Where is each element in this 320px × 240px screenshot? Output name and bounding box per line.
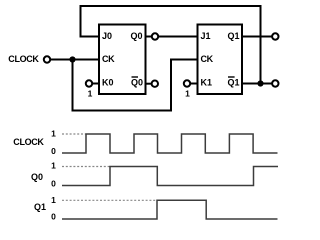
svg-text:CLOCK: CLOCK xyxy=(13,137,44,147)
svg-text:K1: K1 xyxy=(201,78,213,88)
waveform Q1 dotted level-1 leader xyxy=(62,199,157,201)
svg-text:0: 0 xyxy=(51,146,56,156)
wire Q1bar output xyxy=(242,83,272,85)
svg-text:Q1: Q1 xyxy=(34,202,46,212)
terminal K0 circle xyxy=(86,80,92,86)
flip-flop U2 (J1/K1) box xyxy=(198,25,243,95)
waveform CLOCK trace xyxy=(62,134,278,153)
waveform CLOCK dotted level-1 leader xyxy=(62,133,86,135)
terminal Q1bar circle xyxy=(272,80,278,86)
svg-text:J0: J0 xyxy=(102,31,112,41)
svg-text:Q1: Q1 xyxy=(227,31,239,41)
svg-text:CLOCK: CLOCK xyxy=(8,54,39,64)
svg-text:Q0: Q0 xyxy=(131,78,143,88)
svg-text:Q0: Q0 xyxy=(31,172,43,182)
terminal Q0 circle xyxy=(152,33,158,39)
svg-text:Q1: Q1 xyxy=(227,78,239,88)
wire feedback Q1bar to J0 (top loop) xyxy=(81,6,261,84)
terminal CLOCK input circle xyxy=(44,56,50,62)
wire K1 stub xyxy=(191,83,198,85)
flip-flop U1 (J0/K0) box xyxy=(99,25,146,95)
svg-text:0: 0 xyxy=(51,178,56,188)
svg-text:0: 0 xyxy=(51,212,56,222)
waveform Q0 dotted level-1 leader xyxy=(62,166,110,168)
terminal K1 circle xyxy=(184,80,190,86)
wire CLOCK input to CK0 xyxy=(51,59,99,61)
svg-text:1: 1 xyxy=(88,89,93,99)
junction clock node xyxy=(69,56,75,62)
waveform Q0 trace xyxy=(62,167,278,186)
svg-text:CK: CK xyxy=(201,54,214,64)
svg-text:1: 1 xyxy=(51,128,56,138)
svg-text:J1: J1 xyxy=(201,31,211,41)
terminal Q1 circle xyxy=(272,33,278,39)
wire Q0bar stub xyxy=(146,83,152,85)
wire clock rail to CK1 xyxy=(73,60,198,111)
junction Q1bar node xyxy=(257,80,263,86)
wire Q1 output xyxy=(242,36,272,38)
svg-text:1: 1 xyxy=(51,195,56,205)
terminal Q0bar circle xyxy=(152,81,158,87)
wire Q0 to J1 xyxy=(146,36,198,38)
svg-text:CK: CK xyxy=(102,54,115,64)
svg-text:K0: K0 xyxy=(102,78,114,88)
wire K0 stub xyxy=(93,83,99,85)
waveform Q1 trace xyxy=(62,200,278,219)
svg-text:1: 1 xyxy=(51,161,56,171)
svg-text:Q0: Q0 xyxy=(130,31,142,41)
svg-text:1: 1 xyxy=(185,89,190,99)
